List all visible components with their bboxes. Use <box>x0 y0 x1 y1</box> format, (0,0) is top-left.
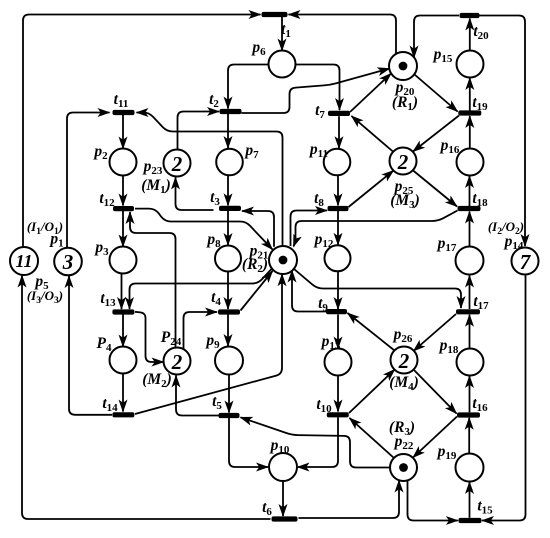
wire p6 to t7 <box>295 65 340 111</box>
wire t17 to p17 <box>469 276 471 310</box>
place p2 <box>110 149 137 176</box>
place p22 <box>390 454 417 481</box>
wire t4 to p9 <box>227 315 229 347</box>
wire p6 to t2 <box>228 65 269 109</box>
transition t3 <box>219 206 241 211</box>
svg-text:11: 11 <box>15 251 32 271</box>
wire p20 to t1 <box>289 15 397 55</box>
wire t4 to p21 <box>241 271 273 311</box>
place p4 <box>110 347 137 374</box>
wire p23 to t2 <box>178 112 220 151</box>
svg-text:(R3): (R3) <box>389 419 415 438</box>
wire p15 to t20 <box>469 19 471 51</box>
place p3 <box>110 247 137 274</box>
wire t8 to p25 <box>349 171 394 208</box>
wire p5 to t1 <box>23 15 261 249</box>
wire t6 to p22 <box>299 481 400 519</box>
wire t13 to p4 <box>122 315 124 347</box>
svg-text:(M4): (M4) <box>389 374 419 393</box>
wire t13 to p24 <box>135 312 164 362</box>
wire p25 to t7 <box>352 116 394 152</box>
svg-text:2: 2 <box>398 349 410 373</box>
transition t17 <box>456 309 480 314</box>
wire t12 to p21 <box>135 209 273 250</box>
place p11 <box>324 149 351 176</box>
wire t18 to p16 <box>469 176 471 206</box>
wire t20 to p20 <box>414 16 459 58</box>
svg-text:(R2): (R2) <box>242 256 268 275</box>
transition t4 <box>218 309 240 314</box>
wire t16 to p22 <box>413 417 457 458</box>
wire p22 to t5 <box>241 417 391 467</box>
svg-text:2: 2 <box>171 152 183 176</box>
wire t9 to p13 <box>337 315 339 349</box>
place p18 <box>457 349 484 376</box>
wire p20 to t19 <box>415 75 458 112</box>
wire p22 to t15 <box>408 480 458 521</box>
svg-text:3: 3 <box>62 250 74 274</box>
svg-text:(M2): (M2) <box>142 371 172 390</box>
svg-text:2: 2 <box>397 150 409 174</box>
wire p24 to t12 <box>130 212 176 349</box>
wire t10 to p26 <box>349 370 395 414</box>
wire t1 to p6 <box>281 17 283 51</box>
place p5 <box>10 247 38 275</box>
transition t10 <box>327 412 349 417</box>
wire t19 to p15 <box>469 78 471 111</box>
wire p12 to t9 <box>337 272 339 309</box>
wire t7 to p11 <box>338 116 340 148</box>
wire t14 to p1 <box>69 276 112 415</box>
transition t13 <box>112 309 134 314</box>
place p25 <box>390 148 417 175</box>
place p24 <box>164 348 191 375</box>
transition t20 <box>460 13 480 18</box>
wire p8 to t4 <box>227 272 229 309</box>
transition t11 <box>113 110 135 115</box>
wire t3 to p23 <box>176 178 214 211</box>
wire p21 to t8 <box>291 211 328 247</box>
wire p24 to t4 <box>184 312 218 350</box>
wire t15 to p19 <box>469 482 471 518</box>
wire p21 to t17 <box>294 269 461 308</box>
svg-text:2: 2 <box>171 350 183 374</box>
wire p14 to t15 <box>482 275 526 521</box>
wire p21 to t13 <box>130 269 272 309</box>
wire t6 to p5 <box>22 276 271 520</box>
place p19 <box>456 454 484 482</box>
transition t19 <box>458 110 481 115</box>
place p8 <box>215 246 241 272</box>
place p9 <box>215 347 243 375</box>
wire t10 to p10 <box>298 417 339 467</box>
transition t6 <box>272 516 298 521</box>
transition t2 <box>220 109 242 114</box>
transition t15 <box>459 518 482 523</box>
wire t5 to p10 <box>229 418 268 467</box>
wire p25 to t18 <box>413 170 458 207</box>
transition t7 <box>328 111 350 116</box>
transition t5 <box>219 413 240 418</box>
wire t19 to p25 <box>413 116 459 152</box>
transition t8 <box>328 206 349 211</box>
transition t16 <box>457 412 480 417</box>
place p21 <box>269 246 297 274</box>
place p26 <box>391 347 418 374</box>
svg-text:(M1): (M1) <box>141 177 171 196</box>
wire p26 to t9 <box>348 313 395 351</box>
wire p1 to t11 <box>67 113 110 249</box>
place p17 <box>456 247 484 275</box>
transition t1 <box>262 12 288 17</box>
wire p19 to t16 <box>468 418 470 453</box>
place p10 <box>269 453 297 481</box>
wire p9 to t5 <box>228 375 230 413</box>
wire t8 to p12 <box>337 211 339 245</box>
place p13 <box>325 349 352 376</box>
transition t14 <box>112 412 134 417</box>
place p20 <box>389 52 417 80</box>
wire t9 to p21 <box>292 271 326 312</box>
wire t16 to p18 <box>469 376 471 412</box>
wire t11 to p2 <box>122 115 124 149</box>
svg-text:7: 7 <box>520 250 532 274</box>
wire p13 to t10 <box>337 375 339 412</box>
wire p26 to t16 <box>414 370 457 414</box>
svg-text:(R1): (R1) <box>392 94 418 113</box>
wire p7 to t3 <box>227 176 229 206</box>
place p6 <box>269 51 296 78</box>
transition t18 <box>458 206 481 211</box>
wire t3 to p8 <box>227 211 229 245</box>
place p23 <box>164 150 191 177</box>
place p15 <box>457 51 484 78</box>
place p1 <box>54 248 82 276</box>
wire p21 to t3 <box>242 211 274 247</box>
wire p17 to t18 <box>469 212 471 248</box>
wire p4 to t14 <box>122 373 124 412</box>
wire t7 to p20 <box>350 74 391 113</box>
wire t17 to p26 <box>414 314 457 351</box>
wire p11 to t8 <box>337 176 339 206</box>
wire t20 to p14 <box>480 16 526 247</box>
wire t2 to p7 <box>227 114 229 148</box>
wire p10 to t6 <box>282 482 284 517</box>
wire p21 to t11 <box>137 113 283 247</box>
wire t18 to p21 <box>294 211 458 247</box>
place p14 <box>512 248 539 275</box>
wire t14 to p21 <box>135 274 282 414</box>
wire t2 to p20 <box>242 69 390 114</box>
transition t9 <box>326 309 347 314</box>
place p16 <box>457 149 484 176</box>
wire t5 to p24 <box>176 376 219 416</box>
transition t12 <box>113 206 134 211</box>
svg-text:(M3): (M3) <box>390 192 420 211</box>
wire t12 to p3 <box>122 211 124 247</box>
wire p2 to t12 <box>122 175 124 206</box>
wire p18 to t17 <box>469 315 471 348</box>
wire p22 to t10 <box>350 418 395 458</box>
wire p3 to t13 <box>121 273 123 309</box>
place p12 <box>325 245 351 271</box>
wire p16 to t19 <box>469 116 471 148</box>
place p7 <box>216 149 243 176</box>
